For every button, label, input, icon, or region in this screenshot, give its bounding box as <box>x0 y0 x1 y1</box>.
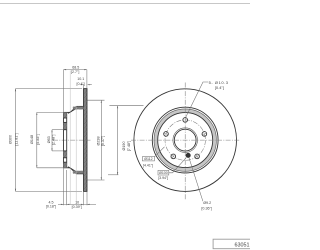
svg-text:68.5: 68.5 <box>72 66 79 70</box>
svg-text:[0.39"]: [0.39"] <box>72 205 82 209</box>
set screw hole Ø9.2 (dark) <box>186 153 190 157</box>
svg-text:Ø190: Ø190 <box>122 141 126 150</box>
boxed label Ø112 [4.41"] <box>142 147 164 168</box>
bore hole edges <box>64 129 67 131</box>
top ledge / step to hat <box>64 106 84 113</box>
title box with part number <box>213 239 253 249</box>
svg-text:[5.83"]: [5.83"] <box>36 134 40 145</box>
dim Ø238 [9.37"] right side of section <box>88 100 105 180</box>
svg-text:[4.41"]: [4.41"] <box>143 164 153 168</box>
svg-text:Ø9.2: Ø9.2 <box>203 201 211 205</box>
svg-text:[2.48"]: [2.48"] <box>52 135 56 146</box>
shading annulus between hat and friction inner <box>156 111 215 170</box>
dim Ø63 [2.48"] center bore <box>47 130 64 151</box>
friction ring section (hatched bar) <box>84 89 88 192</box>
svg-text:Ø148: Ø148 <box>30 135 34 144</box>
bore chamfer circle <box>173 128 198 153</box>
svg-text:Ø100: Ø100 <box>159 171 168 175</box>
svg-text:[0.36"]: [0.36"] <box>201 207 212 211</box>
svg-text:[0.18"]: [0.18"] <box>46 204 56 208</box>
5 bolt holes <box>163 117 207 159</box>
dim 10.1 [0.4"] disc thickness (top) <box>76 77 91 89</box>
svg-text:Ø112: Ø112 <box>144 157 152 161</box>
svg-text:[9.37"]: [9.37"] <box>101 136 105 147</box>
svg-text:[2.7"]: [2.7"] <box>71 70 79 74</box>
extension lines through section <box>69 71 71 205</box>
center bore circle <box>174 129 196 151</box>
dim 4.5 [0.18"] and 10 [0.39"] (bottom) <box>46 168 96 209</box>
friction surface inner circles <box>152 107 218 173</box>
hat mounting plate section (hatched, bore + bolt hole gaps) <box>64 112 67 167</box>
svg-text:[11.81"]: [11.81"] <box>15 133 19 145</box>
bolt circle (dash-dot) <box>165 120 205 160</box>
boxed label Ø100 [3.94"] <box>158 158 186 181</box>
svg-text:[0.4"]: [0.4"] <box>215 85 224 90</box>
dim 68.5 [2.7"] overall width (top) <box>64 66 87 113</box>
dim Ø300 [11.81"] overall diameter <box>9 89 82 192</box>
horizontal centerline <box>131 139 240 141</box>
dim Ø148 [5.83"] hat diameter <box>30 112 64 167</box>
svg-text:[0.4"]: [0.4"] <box>76 82 84 86</box>
svg-text:Ø300: Ø300 <box>9 135 13 144</box>
svg-text:10: 10 <box>75 201 79 205</box>
bottom ledge / step to hat <box>64 167 84 174</box>
label 5-Ø10.3 [0.4"] with leader to top bolt hole <box>185 80 228 118</box>
svg-text:[7.48"]: [7.48"] <box>127 141 131 152</box>
label Ø9.2 [0.36"] with leader to screw hole <box>189 158 212 211</box>
svg-text:10.1: 10.1 <box>77 77 84 81</box>
bolt hole cut edges <box>64 117 67 119</box>
horizontal axis centerline (left view) <box>53 139 91 141</box>
hat outer circle <box>158 113 213 168</box>
svg-text:Ø63: Ø63 <box>47 136 51 143</box>
svg-text:63051: 63051 <box>235 243 250 249</box>
svg-text:[3.94"]: [3.94"] <box>158 176 168 180</box>
dim Ø190 [7.48"] left of face view <box>108 106 144 175</box>
outer diameter circle <box>134 89 237 192</box>
vertical centerline <box>184 83 186 200</box>
top border line <box>0 3 250 5</box>
svg-text:Ø238: Ø238 <box>96 136 100 145</box>
